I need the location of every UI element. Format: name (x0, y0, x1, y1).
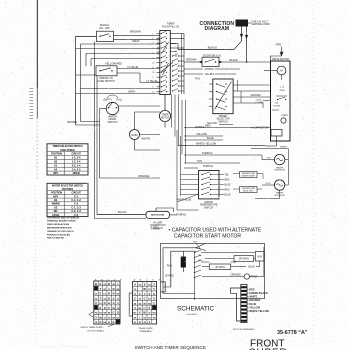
svg-text:4: 4 (152, 53, 153, 55)
svg-text:GRAY: GRAY (128, 90, 136, 94)
svg-text:BROWN: BROWN (130, 30, 141, 34)
svg-text:C: C (134, 297, 136, 301)
svg-text:OPEN: OPEN (73, 172, 80, 175)
svg-text:RED: RED (205, 123, 211, 127)
svg-text:THERMOSTAT: THERMOSTAT (241, 187, 255, 190)
svg-text:TERMINAL: TERMINAL (151, 228, 161, 231)
svg-text:V: V (153, 287, 155, 291)
svg-text:TIMER: TIMER (161, 115, 168, 117)
svg-text:SOLENOID: SOLENOID (274, 170, 285, 172)
svg-text:BLACK: BLACK (118, 210, 127, 214)
svg-text:G: G (112, 311, 114, 315)
svg-text:BROWN: BROWN (68, 121, 78, 124)
svg-text:MOTOR: MOTOR (161, 117, 170, 119)
svg-text:PUSH-PULL ON: PUSH-PULL ON (162, 26, 179, 28)
svg-text:SWITCH AND TIMER SEQUENCE: SWITCH AND TIMER SEQUENCE (135, 345, 206, 350)
svg-text:E: E (100, 306, 102, 310)
svg-text:1 TY: 1 TY (280, 87, 285, 89)
svg-text:YEL: YEL (225, 175, 230, 177)
svg-text:ORANGE: ORANGE (231, 273, 242, 276)
svg-text:X: X (144, 282, 146, 286)
svg-text:WATER TEMP: WATER TEMP (242, 175, 256, 178)
svg-text:ORANGE-OR YELLOW-YL: ORANGE-OR YELLOW-YL (47, 230, 75, 233)
svg-text:EMPTY: EMPTY (104, 99, 113, 102)
svg-text:U: U (95, 301, 97, 305)
svg-text:AUX: AUX (257, 256, 262, 259)
svg-text:GRN-BLK: GRN-BLK (251, 94, 262, 97)
svg-text:BLACK: BLACK (230, 58, 239, 62)
svg-text:TY-GRN: TY-GRN (273, 106, 281, 108)
svg-text:WHITE-YELLOW: WHITE-YELLOW (196, 142, 217, 146)
svg-text:RUN: RUN (167, 265, 172, 268)
svg-text:C2: C2 (152, 72, 154, 74)
svg-text:6: 6 (152, 67, 153, 69)
svg-text:DRIVE MOTOR: DRIVE MOTOR (272, 58, 289, 61)
svg-text:DIAGRAM: DIAGRAM (205, 26, 230, 32)
svg-text:LT-GRN: LT-GRN (256, 102, 264, 104)
svg-text:BUZZ: BUZZ (132, 135, 139, 137)
svg-text:TAN: TAN (197, 159, 202, 163)
svg-text:GREEN-BLACK: GREEN-BLACK (249, 292, 268, 295)
svg-text:B: B (95, 282, 97, 286)
svg-text:PURPLE: PURPLE (203, 165, 213, 168)
svg-text:TIMER PLATE: TIMER PLATE (138, 327, 153, 330)
svg-text:5: 5 (152, 58, 153, 60)
svg-text:3: 3 (152, 48, 153, 50)
svg-text:BLUE: BLUE (207, 136, 214, 140)
svg-text:E: E (113, 320, 115, 324)
svg-text:D: D (108, 296, 110, 300)
svg-text:D: D (117, 311, 119, 315)
svg-text:YELLOW: YELLOW (249, 306, 260, 309)
svg-text:ORANGE: ORANGE (249, 299, 260, 302)
svg-text:D: D (99, 320, 101, 324)
svg-text:MOTOR TERMINALS: MOTOR TERMINALS (233, 328, 255, 331)
svg-text:BLUE: BLUE (225, 185, 231, 187)
svg-text:C: C (144, 297, 146, 301)
svg-text:FRONT TIMER PLATE: FRONT TIMER PLATE (81, 326, 104, 329)
svg-text:BLUE GRY: BLUE GRY (243, 191, 254, 193)
svg-text:TAN-TN RED-RD: TAN-TN RED-RD (47, 237, 65, 240)
svg-text:R: R (113, 292, 115, 296)
svg-text:GRN: GRN (276, 44, 282, 47)
svg-text:PURPLE-PU BLUE-BU: PURPLE-PU BLUE-BU (47, 234, 71, 236)
svg-text:GRN: GRN (280, 90, 285, 92)
svg-text:OFF: OFF (53, 172, 58, 175)
svg-text:PURPLE: PURPLE (177, 214, 187, 217)
svg-text:SWITCH: SWITCH (204, 206, 214, 209)
svg-text:FUSE SWITCH: FUSE SWITCH (97, 80, 114, 83)
svg-text:PROT.: PROT. (251, 276, 258, 279)
svg-text:Y: Y (144, 292, 146, 296)
svg-text:G: G (99, 282, 101, 286)
svg-text:1 BLK: 1 BLK (256, 99, 262, 101)
svg-text:BLUE: BLUE (249, 303, 256, 306)
svg-text:WATER SELECTOR SWITCH: WATER SELECTOR SWITCH (52, 184, 83, 187)
svg-text:WHITE: WHITE (280, 147, 288, 149)
svg-text:SWITCH: SWITCH (218, 120, 228, 123)
svg-text:YELLOW-RED: YELLOW-RED (105, 62, 122, 66)
svg-text:X: X (139, 311, 141, 315)
svg-text:SCHEMATIC: SCHEMATIC (177, 305, 215, 312)
svg-text:4P MAIN: 4P MAIN (215, 266, 225, 269)
svg-text:FULL: FULL (117, 99, 124, 102)
svg-text:ON - OFF: ON - OFF (99, 27, 110, 30)
svg-text:(8 X NOT AVAIL): (8 X NOT AVAIL) (88, 330, 105, 333)
svg-text:TERMINAL BOARD POINTS:: TERMINAL BOARD POINTS: (47, 220, 77, 223)
svg-text:WH-BLK: WH-BLK (205, 68, 215, 71)
svg-text:35-6778 “A”: 35-6778 “A” (277, 330, 308, 336)
svg-text:RED: RED (225, 190, 230, 192)
svg-text:BLACK: BLACK (208, 45, 217, 49)
svg-text:TIMER SELECTOR SWITCH: TIMER SELECTOR SWITCH (53, 146, 83, 148)
svg-text:• CAPACITOR USED WITH ALTERNAT: • CAPACITOR USED WITH ALTERNATE (169, 228, 262, 234)
svg-text:A B C D E: A B C D E (134, 278, 163, 281)
svg-text:HI-LIMIT: HI-LIMIT (154, 223, 164, 225)
svg-text:A: A (113, 301, 115, 305)
svg-text:LETTERS BY END OF WIRE AT: LETTERS BY END OF WIRE AT (47, 216, 80, 219)
svg-text:10: 10 (152, 92, 154, 94)
svg-text:YELLOW: YELLOW (196, 132, 207, 136)
svg-text:S: S (153, 297, 155, 301)
svg-text:START: START (281, 114, 289, 117)
svg-text:TERMINALS: TERMINALS (139, 330, 152, 333)
svg-text:BLUE: BLUE (249, 266, 256, 269)
svg-text:123456789: 123456789 (157, 35, 159, 56)
svg-text:TAN: TAN (195, 78, 200, 81)
svg-text:WHITE: WHITE (249, 296, 257, 299)
svg-text:LT. BLUE: LT. BLUE (128, 65, 139, 69)
svg-text:DIAGRAM: DIAGRAM (187, 313, 197, 316)
svg-text:PURPLE: PURPLE (202, 151, 213, 155)
svg-text:1: 1 (152, 33, 153, 35)
svg-text:BLUE: BLUE (225, 195, 231, 197)
svg-text:(START): (START) (165, 274, 174, 277)
svg-text:G: G (139, 320, 141, 324)
svg-text:6P MAIN: 6P MAIN (239, 258, 249, 261)
svg-text:9: 9 (152, 87, 153, 89)
svg-text:BROWN-BR WHITE-WH: BROWN-BR WHITE-WH (47, 228, 72, 230)
svg-text:TIMER: TIMER (167, 23, 175, 26)
svg-text:R: R (108, 292, 110, 296)
svg-text:WHITE: WHITE (142, 137, 151, 141)
svg-text:RED: RED (249, 288, 254, 291)
svg-text:R: R (113, 287, 115, 291)
svg-text:COLD: COLD (265, 183, 271, 185)
svg-text:RED: RED (225, 180, 230, 182)
svg-text:YEL-BLK: YEL-BLK (205, 73, 215, 76)
svg-text:G: G (104, 301, 106, 305)
svg-text:SWITCH: SWITCH (108, 121, 118, 124)
svg-text:2: 2 (152, 38, 153, 40)
svg-text:CAPACITOR START MOTOR: CAPACITOR START MOTOR (174, 234, 241, 240)
svg-text:THERMOSTAT: THERMOSTAT (241, 172, 255, 175)
svg-text:E: E (100, 292, 102, 296)
svg-text:GRAY-GR BLACK-BK: GRAY-GR BLACK-BK (47, 223, 70, 226)
svg-text:X: X (134, 282, 136, 286)
svg-text:SERVICE CORD: SERVICE CORD (252, 23, 270, 26)
svg-text:N: N (113, 306, 115, 310)
svg-text:E: E (153, 292, 155, 296)
svg-text:ORANGE: ORANGE (138, 174, 150, 178)
svg-text:E: E (153, 301, 155, 305)
svg-text:8: 8 (152, 82, 153, 84)
svg-text:BROWN: BROWN (187, 58, 197, 62)
